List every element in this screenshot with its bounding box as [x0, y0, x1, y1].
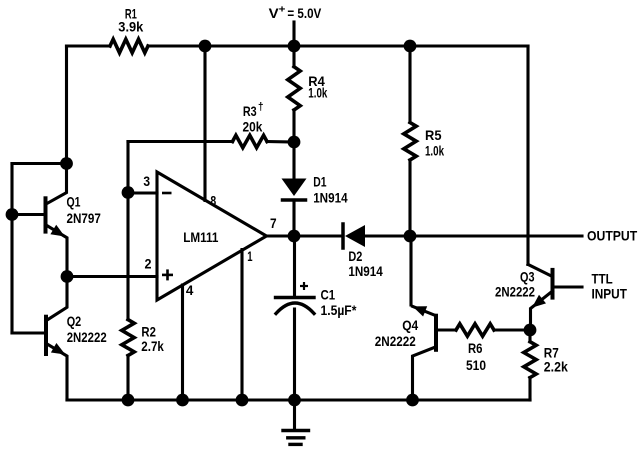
wire R7 to ground rail	[528, 378, 531, 400]
svg-text:V: V	[269, 5, 280, 21]
node R2 ground	[122, 394, 135, 407]
svg-text:2.2k: 2.2k	[544, 359, 568, 375]
wire R6 to Q3 emitter node	[494, 328, 530, 331]
wire pin 1 vertical	[240, 250, 243, 401]
node Q2 collector / pin2	[61, 270, 74, 283]
wire TTL input to Q3 base	[554, 285, 582, 288]
wire Q4 base	[436, 328, 456, 331]
wire bottom ground rail	[67, 398, 530, 401]
svg-text:2N797: 2N797	[67, 210, 102, 226]
resistor R2	[122, 320, 134, 356]
wire pin 8 vertical	[203, 46, 206, 201]
wire R2 to ground rail	[126, 356, 129, 401]
op-amp minus sign	[162, 192, 172, 195]
resistor R1	[110, 39, 148, 53]
svg-text:510: 510	[466, 357, 486, 373]
node C1 ground	[288, 394, 301, 407]
svg-text:20k: 20k	[243, 119, 263, 135]
wire C1 to ground rail	[293, 309, 296, 400]
svg-text:R3: R3	[243, 103, 257, 119]
node pin7/D2/C1	[288, 230, 301, 243]
resistor R6	[456, 324, 494, 336]
op-amp U1 LM111 triangle	[157, 172, 267, 300]
node V+ rail	[288, 40, 301, 53]
svg-text:1: 1	[247, 248, 252, 264]
wire left rail vertical	[10, 164, 13, 334]
node Q1 collector	[60, 157, 73, 170]
op-amp plus sign	[162, 269, 173, 280]
wire R3 left segment	[128, 140, 233, 143]
svg-text:3.9k: 3.9k	[118, 19, 143, 35]
transistor Q2 collector	[46, 277, 67, 321]
resistor R7	[528, 330, 531, 342]
wire OUTPUT	[410, 234, 582, 237]
wire D1 cathode to pin7 node	[292, 200, 295, 236]
transistor Q1 base bar	[44, 198, 48, 231]
svg-text:1N914: 1N914	[348, 263, 383, 279]
transistor Q4 collector	[413, 347, 437, 400]
svg-text:7: 7	[270, 215, 277, 231]
node pin1 ground	[236, 394, 249, 407]
wire R4 bottom to junction	[292, 110, 295, 142]
svg-text:Q1: Q1	[67, 194, 81, 210]
svg-text:Q2: Q2	[67, 313, 82, 329]
svg-text:2.7k: 2.7k	[141, 338, 164, 354]
node pin3 inverting input	[122, 186, 135, 199]
svg-text:Q4: Q4	[402, 317, 418, 333]
svg-text:1.5µF*: 1.5µF*	[321, 302, 357, 318]
svg-text:INPUT: INPUT	[592, 286, 628, 302]
ground	[293, 400, 296, 430]
node output/R5/D2/Q4	[404, 230, 417, 243]
wire R3 corner vertical / inverting-input node	[126, 142, 129, 320]
svg-text:R5: R5	[425, 127, 442, 143]
wire R5 top	[408, 46, 411, 123]
wire pin 3 input	[128, 191, 157, 194]
wire top rail right segment	[148, 44, 528, 47]
transistor Q2 emitter	[46, 343, 67, 400]
resistor R3	[233, 135, 268, 147]
wire R5 bottom	[408, 160, 411, 236]
svg-text:LM111: LM111	[183, 229, 218, 245]
transistor Q3 base bar	[551, 270, 555, 298]
svg-text:TTL: TTL	[592, 271, 614, 287]
capacitor C1	[276, 296, 315, 299]
svg-text:D2: D2	[348, 248, 362, 264]
node R5 top rail	[404, 40, 417, 53]
wire R3 to R4 junction	[267, 140, 294, 144]
transistor Q1 emitter	[46, 225, 68, 277]
wire top rail left segment	[67, 44, 111, 47]
node R3/R4/D1	[288, 136, 301, 149]
wire pin 7 output	[267, 234, 295, 237]
node pin4 ground	[176, 394, 189, 407]
wire pin7 node to D2	[294, 234, 343, 237]
svg-text:1.0k: 1.0k	[425, 143, 444, 159]
wire jog to left rail	[12, 162, 67, 165]
svg-text:= 5.0V: = 5.0V	[287, 5, 321, 21]
wire Q1 base	[12, 213, 46, 216]
diode D2	[341, 224, 345, 248]
wire left top vertical (rail to Q1 collector)	[65, 46, 68, 164]
transistor Q1 collector	[46, 164, 67, 205]
wire Q2 base	[12, 331, 46, 334]
svg-text:OUTPUT: OUTPUT	[587, 227, 638, 243]
svg-text:1.0k: 1.0k	[308, 85, 327, 101]
svg-text:C1: C1	[321, 287, 336, 303]
transistor Q4 base bar	[434, 316, 438, 350]
resistor R5	[404, 123, 416, 161]
wire R4 top	[292, 46, 295, 67]
C1 plus sign	[300, 282, 308, 290]
svg-text:2N2222: 2N2222	[495, 284, 535, 300]
resistor R4	[288, 67, 300, 110]
wire Q3 collector vertical	[526, 46, 529, 264]
transistor Q2 base bar	[44, 317, 48, 354]
node Q4 collector ground	[406, 394, 419, 407]
wire pin7 node to C1	[293, 236, 296, 298]
svg-text:2N2222: 2N2222	[375, 333, 416, 349]
wire output node to Q4 emitter	[409, 236, 412, 305]
svg-text:8: 8	[210, 193, 216, 209]
wire junction to D1 anode	[292, 142, 295, 179]
transistor Q3 emitter	[531, 291, 553, 330]
wire D2 anode to output node	[365, 234, 410, 237]
svg-text:1N914: 1N914	[313, 190, 348, 206]
node Q1 base left rail	[6, 208, 19, 221]
node Q3 emitter/R6/R7	[524, 324, 537, 337]
svg-text:Q3: Q3	[520, 269, 535, 285]
svg-text:2N2222: 2N2222	[67, 329, 107, 345]
svg-text:4: 4	[186, 282, 194, 298]
V+ supply stem	[292, 22, 295, 46]
svg-text:R2: R2	[141, 324, 156, 340]
wire pin 4 vertical	[181, 285, 184, 400]
node pin8 top rail	[199, 40, 212, 53]
svg-text:†: †	[258, 101, 264, 113]
svg-text:3: 3	[143, 173, 150, 189]
wire pin 2 input	[67, 275, 157, 278]
svg-text:2: 2	[145, 256, 152, 272]
transistor Q4 emitter	[413, 306, 436, 315]
svg-text:R6: R6	[468, 340, 483, 356]
svg-text:D1: D1	[313, 174, 326, 190]
diode D1	[282, 179, 307, 197]
svg-text:+: +	[279, 4, 286, 16]
transistor Q3 collector	[528, 264, 553, 276]
